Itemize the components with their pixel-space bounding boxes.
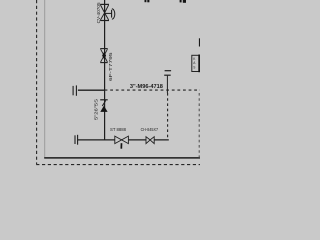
pipe cap (double bar) — [72, 86, 74, 95]
main vertical pipe — [104, 0, 106, 141]
svg-text:S: S — [193, 66, 195, 70]
top edge cut-off mark 1 — [145, 0, 147, 2]
filled wedge center — [102, 52, 106, 59]
inner solid border (left, faint) — [44, 0, 46, 158]
check valve — [100, 99, 108, 101]
bottom pipe — [78, 139, 169, 141]
CV actuator — [105, 9, 115, 19]
vent stem — [166, 76, 168, 93]
box right thick border — [198, 55, 200, 73]
globe valve stem — [120, 143, 122, 149]
dashed signal drop — [167, 93, 169, 140]
right edge mark — [199, 38, 200, 46]
dashed process line 3"-M96-4718 — [105, 89, 200, 91]
globe valve ST8888 — [115, 136, 129, 144]
gate valve CH-845X — [146, 137, 154, 144]
svg-text:ST 8888: ST 8888 — [110, 127, 127, 132]
svg-text:3"-M96-4718: 3"-M96-4718 — [130, 84, 163, 90]
hand valve (vertical, filled wedge) — [100, 49, 108, 63]
svg-text:CH-845X7: CH-845X7 — [141, 127, 159, 132]
svg-text:CV-40705: CV-40705 — [96, 2, 101, 23]
off-page connector box — [192, 55, 199, 71]
control valve CV-40705 — [100, 4, 109, 20]
capped branch line — [78, 89, 105, 91]
svg-text:5"26"5S: 5"26"5S — [93, 99, 98, 120]
pipe cap (double bar) — [74, 135, 76, 144]
top edge cut-off mark 2 — [180, 0, 182, 2]
battery-limit dashed border — [36, 0, 200, 165]
svg-text:6F-T7795: 6F-T7795 — [108, 52, 113, 81]
vent symbol (double bars) — [165, 70, 172, 72]
inner solid border (bottom) — [44, 157, 200, 159]
right edge dashed border — [198, 93, 200, 159]
